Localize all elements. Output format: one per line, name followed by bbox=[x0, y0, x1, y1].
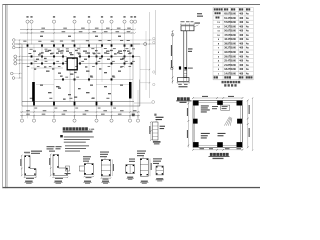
dim tick bbox=[88, 29, 89, 30]
plan right edge lower bbox=[139, 80, 141, 107]
S3 dim bottom bbox=[84, 176, 93, 178]
wall line bottom 2 bbox=[22, 105, 140, 107]
dim tick bbox=[53, 115, 54, 116]
callout text bbox=[56, 146, 62, 147]
bubble stem bbox=[129, 116, 131, 119]
S2 dim left bbox=[50, 155, 52, 176]
dim tick bbox=[131, 29, 132, 30]
dim tick bbox=[222, 97, 224, 99]
section S5 bbox=[126, 165, 135, 174]
row stub bbox=[140, 69, 150, 71]
annotation text bbox=[40, 36, 43, 37]
grid bubble bottom bbox=[95, 119, 98, 122]
column label bbox=[65, 60, 68, 63]
beam line vertical bbox=[79, 44, 81, 64]
dim tick bbox=[19, 59, 20, 60]
machine room column bbox=[193, 101, 199, 106]
section label bbox=[84, 181, 91, 182]
strip label scale bbox=[154, 143, 160, 144]
section S7 bbox=[156, 166, 163, 175]
dim tick bbox=[74, 32, 75, 33]
dim tick bbox=[150, 121, 151, 123]
annotation text bbox=[50, 53, 53, 54]
column label bbox=[49, 65, 52, 68]
grid bubble left bbox=[14, 55, 17, 58]
section S1 L-shape bbox=[25, 156, 37, 176]
annotation text bbox=[127, 51, 130, 52]
section S3 bbox=[84, 164, 93, 175]
beam line bbox=[96, 84, 129, 86]
annotation text bbox=[84, 59, 87, 60]
dim text bbox=[93, 30, 97, 33]
dim tick bbox=[137, 111, 138, 112]
dim tick bbox=[19, 39, 20, 40]
dim tick bbox=[134, 29, 135, 30]
row line bbox=[134, 102, 152, 104]
wall line bottom 1 bbox=[22, 101, 134, 103]
svg-text:400: 400 bbox=[239, 17, 244, 20]
dim tick bbox=[53, 32, 54, 33]
annotation text bbox=[60, 76, 63, 77]
column label bbox=[56, 60, 59, 63]
annotation text bbox=[118, 71, 121, 72]
wall line mid2 left bbox=[22, 63, 67, 65]
grid bubble left bbox=[14, 59, 17, 62]
machine room column bbox=[217, 142, 223, 147]
grid line ext bbox=[132, 80, 134, 117]
S2 dim text bbox=[55, 178, 63, 179]
dim tick bbox=[192, 149, 194, 151]
rotated dim text bbox=[171, 45, 172, 56]
sheet note bbox=[197, 13, 202, 14]
dim text bbox=[83, 113, 87, 116]
elev dim chain bbox=[172, 31, 174, 84]
annotation text bbox=[104, 86, 107, 87]
annotation text bbox=[123, 50, 126, 51]
annotation text bbox=[118, 36, 121, 37]
annotation text bbox=[129, 52, 132, 53]
left dim chain bbox=[19, 40, 21, 78]
elevation cap beam bbox=[181, 26, 194, 31]
dim tick bbox=[19, 56, 20, 57]
grid number bbox=[53, 16, 55, 17]
dim tick bbox=[19, 47, 20, 48]
column label bbox=[86, 39, 89, 42]
svg-text:400: 400 bbox=[239, 38, 244, 41]
grid number bbox=[130, 16, 132, 17]
callout S2 bbox=[49, 151, 55, 152]
column label bbox=[34, 60, 37, 63]
column bbox=[74, 44, 76, 46]
svg-text:400: 400 bbox=[239, 13, 244, 16]
room annotation bbox=[212, 106, 218, 107]
level bubble 2 bbox=[171, 67, 174, 70]
dim tick bbox=[101, 29, 102, 30]
grid bubble left bbox=[14, 62, 17, 65]
column label bbox=[85, 52, 88, 55]
grid number bbox=[26, 16, 28, 17]
bubble stem bbox=[111, 116, 113, 119]
column bbox=[88, 78, 90, 80]
dim tick bbox=[21, 115, 22, 116]
row stub bbox=[140, 82, 150, 84]
annotation text bbox=[70, 54, 74, 55]
annotation text bbox=[118, 51, 122, 52]
grid line bbox=[88, 45, 90, 83]
table column line bbox=[212, 7, 214, 79]
dim text bbox=[120, 109, 124, 112]
dim tick bbox=[172, 80, 174, 82]
foot dim ext bbox=[183, 81, 185, 83]
S7 callout bbox=[153, 158, 162, 159]
column bbox=[53, 62, 55, 64]
annotation text bbox=[38, 54, 41, 55]
dim text bbox=[62, 30, 66, 33]
dim text bbox=[62, 113, 66, 116]
column bbox=[96, 102, 98, 106]
annotation text bbox=[86, 71, 90, 72]
column bbox=[74, 78, 76, 80]
foot note bbox=[179, 86, 188, 87]
room dim left bbox=[187, 101, 189, 148]
dim line bottom 2 bbox=[20, 115, 140, 117]
dim tick bbox=[242, 149, 244, 151]
grid line stem bbox=[101, 23, 103, 44]
column label bbox=[23, 40, 26, 43]
dim text bbox=[63, 109, 67, 112]
annotation text bbox=[61, 50, 64, 51]
room annotation bbox=[201, 133, 210, 134]
table column line bbox=[238, 7, 240, 79]
dim tick bbox=[216, 149, 218, 151]
column label bbox=[90, 76, 93, 79]
annotation text bbox=[44, 58, 47, 59]
column label bbox=[91, 47, 94, 50]
column label bbox=[65, 76, 68, 79]
column label bbox=[112, 60, 115, 63]
cap dim text bbox=[186, 20, 190, 23]
column bbox=[62, 78, 64, 80]
bubble stem bbox=[33, 116, 35, 119]
column bbox=[88, 44, 90, 46]
svg-text:3.60: 3.60 bbox=[231, 26, 236, 28]
row line ext bbox=[133, 43, 156, 45]
column foot bbox=[178, 78, 190, 82]
dim text bbox=[127, 30, 131, 33]
table caption line 1 bbox=[222, 81, 224, 83]
column label bbox=[30, 97, 33, 100]
section label bbox=[156, 178, 163, 179]
bubble stem bbox=[53, 116, 55, 119]
machine room column bbox=[193, 142, 199, 147]
opening text bbox=[222, 108, 227, 109]
S1 rot dim text bbox=[20, 159, 21, 166]
column label bbox=[98, 107, 101, 110]
dim text bbox=[200, 148, 205, 149]
svg-text:400: 400 bbox=[239, 34, 244, 37]
level text bbox=[188, 68, 193, 69]
column label bbox=[112, 76, 115, 79]
callout S2 bbox=[47, 146, 55, 147]
S7 leader bbox=[157, 164, 159, 166]
svg-text:400: 400 bbox=[239, 25, 244, 28]
beam line vertical bbox=[96, 44, 98, 64]
column label bbox=[49, 97, 52, 100]
dim tick bbox=[172, 77, 174, 79]
S5 callout bbox=[129, 161, 135, 162]
S1 dim text bbox=[24, 152, 30, 153]
column label bbox=[57, 48, 60, 51]
table grid bbox=[213, 6, 253, 8]
svg-text:400: 400 bbox=[239, 72, 244, 75]
S6 leader bbox=[142, 156, 144, 158]
S5 callout bbox=[129, 159, 135, 160]
S4 callout bbox=[100, 154, 108, 155]
callout text bbox=[56, 148, 61, 149]
svg-text:400: 400 bbox=[239, 68, 244, 71]
rotated dim text bbox=[149, 126, 150, 134]
dim tick bbox=[74, 115, 75, 116]
column bbox=[111, 78, 113, 80]
annotation text bbox=[90, 76, 93, 77]
grid line bbox=[53, 23, 55, 118]
beam line vertical bbox=[124, 44, 126, 64]
S2 dim bottom bbox=[53, 176, 68, 178]
S1 dim top bbox=[25, 153, 31, 155]
rebar mark bbox=[185, 67, 187, 70]
callout S1 bbox=[31, 151, 42, 152]
bubble stem bbox=[96, 116, 98, 119]
grid bubble bottom bbox=[73, 119, 76, 122]
shear wall left bbox=[32, 82, 35, 102]
section S2 L-shape bbox=[53, 155, 68, 176]
column bbox=[124, 55, 126, 57]
annotation text bbox=[78, 53, 81, 54]
svg-text:400: 400 bbox=[239, 64, 244, 67]
frame left inner line 1 bbox=[5, 5, 7, 189]
annotation text bbox=[99, 58, 102, 59]
machine room column bbox=[237, 119, 242, 124]
table column line bbox=[252, 7, 254, 79]
column label bbox=[51, 40, 54, 43]
rotated dim text bbox=[249, 105, 250, 114]
dim tick bbox=[187, 103, 189, 105]
grid bubble bottom bbox=[52, 119, 55, 122]
strip callout bbox=[156, 119, 163, 120]
annotation text bbox=[122, 58, 125, 59]
rotated dim text bbox=[187, 130, 188, 138]
column bbox=[96, 62, 98, 64]
dim text bbox=[106, 27, 110, 30]
grid line bbox=[74, 23, 76, 118]
room opening bbox=[221, 105, 230, 110]
strip dim bbox=[150, 122, 152, 140]
dim tick bbox=[27, 32, 28, 33]
shaft wall line bbox=[74, 70, 76, 102]
dim tick bbox=[111, 111, 112, 112]
annotation text bbox=[117, 52, 120, 53]
grid bubble top bbox=[110, 20, 113, 23]
annotation text bbox=[120, 66, 122, 67]
grid bubble left bbox=[13, 39, 16, 42]
grid bubble right small bbox=[153, 83, 155, 85]
row stub bbox=[15, 43, 22, 45]
S4 rot dim text bbox=[113, 164, 114, 171]
column label bbox=[97, 52, 100, 55]
dim tick bbox=[111, 29, 112, 30]
column label bbox=[92, 52, 95, 55]
dim text bbox=[41, 27, 45, 30]
annotation text bbox=[48, 92, 52, 93]
annotation text bbox=[78, 88, 81, 89]
dim tick bbox=[53, 29, 54, 30]
grid bubble top bbox=[130, 20, 133, 23]
elev title scale bbox=[180, 102, 187, 103]
table caption line 2 bbox=[224, 84, 226, 86]
callout S1 bbox=[31, 153, 40, 154]
annotation text bbox=[83, 51, 87, 52]
dim tick bbox=[150, 139, 151, 141]
wall line mid2 right bbox=[78, 63, 133, 65]
column label bbox=[60, 40, 63, 43]
rotated dim text bbox=[171, 60, 172, 68]
S7 callout bbox=[153, 163, 159, 164]
note line bbox=[64, 141, 86, 144]
dim tick bbox=[134, 32, 135, 33]
grid bubble right small bbox=[153, 71, 155, 73]
S6 callout bbox=[137, 155, 144, 156]
foot divider bbox=[183, 78, 185, 82]
grid line bbox=[124, 45, 126, 69]
column bbox=[62, 55, 64, 57]
annotation text bbox=[36, 59, 39, 60]
column label bbox=[113, 107, 116, 110]
svg-text:400: 400 bbox=[239, 21, 244, 24]
row stub bbox=[15, 39, 22, 41]
annotation text bbox=[52, 68, 54, 69]
grid line bbox=[33, 45, 35, 119]
S3 callout bbox=[83, 156, 91, 157]
machine room column bbox=[237, 101, 243, 106]
dim tick bbox=[137, 115, 138, 116]
dim tick bbox=[19, 77, 20, 78]
grid bubble top bbox=[100, 20, 103, 23]
S3 callout bbox=[83, 161, 89, 162]
column bbox=[31, 62, 33, 64]
column bbox=[53, 102, 55, 106]
svg-text:3.60: 3.60 bbox=[231, 56, 236, 58]
dim tick bbox=[88, 32, 89, 33]
S4 dim bottom bbox=[101, 177, 110, 179]
central shaft wall bbox=[67, 58, 77, 70]
room annotation bbox=[218, 135, 224, 136]
section label bbox=[25, 181, 32, 182]
leader bbox=[156, 120, 158, 122]
sheet bottom border bbox=[3, 187, 261, 188]
dim text bbox=[104, 30, 108, 33]
dim text bbox=[101, 113, 105, 116]
S4 callout bbox=[100, 152, 109, 153]
dim tick bbox=[31, 32, 32, 33]
annotation text bbox=[120, 85, 123, 86]
column label bbox=[108, 65, 111, 68]
section label bbox=[127, 177, 133, 178]
row stub bbox=[17, 59, 22, 61]
column bbox=[132, 55, 134, 57]
machine room column bbox=[217, 101, 223, 105]
cap divider bbox=[184, 26, 186, 31]
row stub bbox=[17, 63, 22, 65]
dim tick bbox=[19, 43, 20, 44]
room dim right bbox=[247, 100, 249, 147]
cap dim line bbox=[180, 23, 195, 25]
S1 dim left bbox=[21, 156, 23, 176]
dim text bbox=[63, 27, 67, 30]
annotation text bbox=[104, 52, 107, 53]
svg-text:400: 400 bbox=[239, 30, 244, 33]
level bubble bbox=[171, 34, 174, 37]
cap dim ext bbox=[193, 23, 195, 26]
svg-text:400: 400 bbox=[239, 43, 244, 46]
grid bubble left bbox=[11, 72, 14, 75]
plan left edge bbox=[21, 45, 23, 107]
title underline thin bbox=[63, 132, 93, 134]
svg-text:400: 400 bbox=[239, 47, 244, 50]
annotation text bbox=[58, 73, 61, 74]
annotation text bbox=[68, 36, 71, 37]
dim tick bbox=[74, 29, 75, 30]
note line bbox=[65, 147, 86, 150]
foot divider bbox=[186, 78, 188, 82]
svg-text:400: 400 bbox=[239, 55, 244, 58]
dim text bbox=[133, 109, 137, 112]
annotation text bbox=[66, 51, 69, 52]
column label bbox=[51, 52, 54, 55]
sheet note bbox=[197, 16, 203, 17]
room annotation bbox=[201, 111, 207, 112]
foot dim ext bbox=[188, 81, 190, 83]
column label bbox=[72, 40, 75, 43]
grid number bbox=[123, 16, 125, 17]
table row 2 bbox=[216, 17, 218, 19]
column bbox=[41, 55, 43, 57]
wall line lower bbox=[54, 79, 133, 81]
dim text bbox=[43, 109, 47, 112]
right boundary line bbox=[155, 10, 157, 75]
column bbox=[79, 55, 81, 57]
machine room outer wall bbox=[193, 101, 243, 148]
column label bbox=[77, 52, 80, 55]
grid line bbox=[27, 23, 29, 118]
column bbox=[124, 62, 126, 64]
bubble stem bbox=[74, 116, 76, 119]
annotation text bbox=[93, 53, 96, 54]
svg-text:3.60: 3.60 bbox=[231, 39, 236, 41]
dim text bbox=[127, 27, 131, 30]
column bbox=[111, 62, 113, 64]
column bbox=[27, 44, 29, 46]
dim tick bbox=[172, 67, 174, 69]
plan right edge outer bbox=[139, 57, 141, 107]
column label bbox=[127, 39, 130, 42]
dim tick bbox=[19, 63, 20, 64]
dim tick bbox=[96, 111, 97, 112]
dim tick bbox=[21, 111, 22, 112]
column bbox=[101, 44, 103, 46]
level text bbox=[188, 51, 192, 52]
stirrup rung bbox=[184, 67, 187, 69]
column bbox=[111, 55, 113, 57]
